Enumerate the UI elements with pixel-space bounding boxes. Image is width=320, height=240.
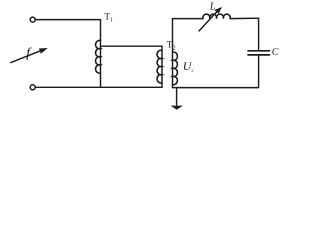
- wire top of tank left: [173, 18, 204, 20]
- frequency arrow f: [11, 45, 48, 63]
- wire right side upper: [258, 18, 260, 50]
- transformer T2 primary winding: [157, 46, 162, 87]
- transformer T2 secondary winding: [173, 19, 178, 88]
- arrow through L: [199, 7, 222, 31]
- capacitor C: [248, 51, 270, 55]
- wire right side lower: [258, 55, 260, 88]
- svg-text:L: L: [209, 1, 216, 12]
- wire bottom-left: [35, 86, 162, 88]
- wire link top: [101, 45, 163, 47]
- ground: [171, 88, 184, 110]
- wire top-left: [35, 19, 100, 21]
- wire top of tank right: [230, 17, 258, 19]
- inductor L: [203, 14, 230, 18]
- wire bottom-right: [173, 87, 259, 89]
- terminal bottom-left: [30, 85, 35, 90]
- terminal top-left: [30, 17, 35, 22]
- svg-text:C: C: [272, 47, 279, 58]
- transformer T1 winding: [96, 20, 101, 88]
